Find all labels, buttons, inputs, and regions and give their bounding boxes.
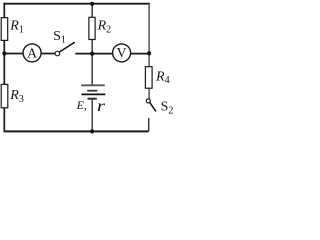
svg-text:S2: S2 [161, 100, 173, 117]
svg-text:R2: R2 [97, 19, 112, 36]
svg-text:A: A [27, 47, 38, 62]
svg-text:E,: E, [76, 98, 87, 112]
svg-text:R1: R1 [9, 19, 24, 36]
svg-text:R3: R3 [9, 88, 24, 105]
svg-text:S1: S1 [53, 29, 66, 46]
svg-text:R4: R4 [155, 69, 170, 86]
svg-text:r: r [97, 97, 106, 114]
svg-text:V: V [117, 46, 127, 61]
